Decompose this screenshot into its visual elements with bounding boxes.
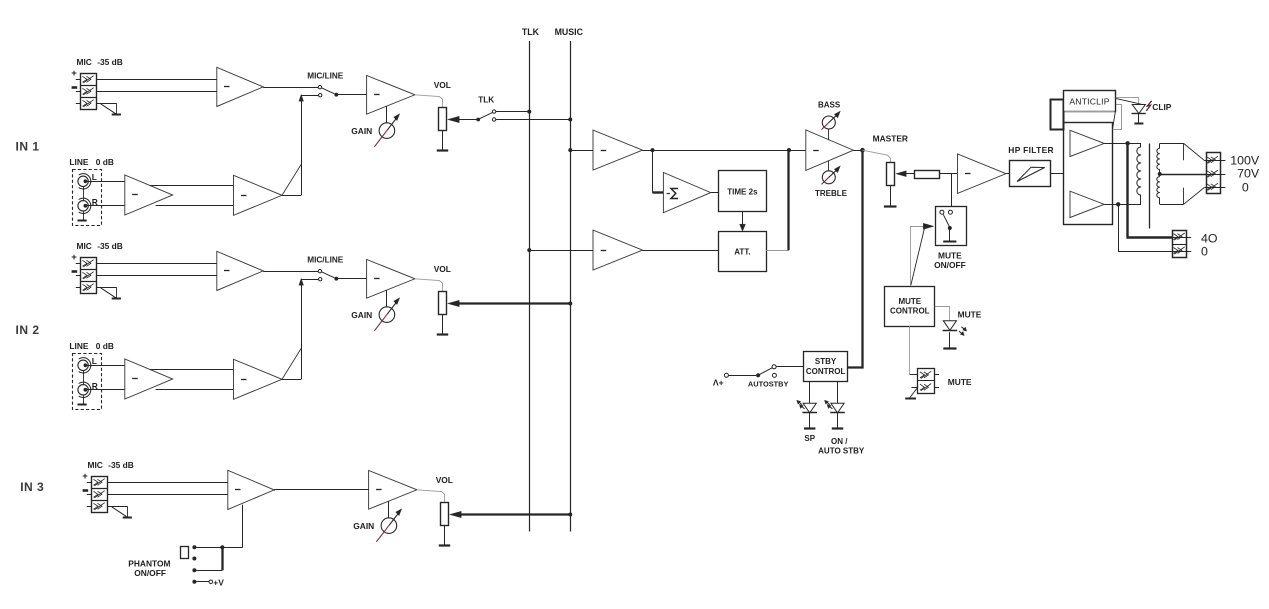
wire mute tap	[951, 174, 953, 207]
LED ON/AUTO STBY indicator	[824, 400, 844, 413]
wire VOL wiper arrow IN2	[448, 300, 460, 306]
wire autostby to stby control	[776, 366, 804, 368]
wire MIC - input IN3	[87, 494, 228, 496]
op-amp sigma detector	[663, 173, 710, 213]
wire anticlip to clip led gray	[1116, 98, 1139, 104]
svg-text:CONTROL: CONTROL	[890, 307, 930, 316]
wire 100V cell	[1204, 160, 1225, 162]
connector J2 LINE label	[69, 341, 114, 351]
label MIC/LINE switch IN1	[307, 71, 343, 80]
wire L-R jack ground link IN2	[83, 371, 85, 405]
svg-text:MIC/LINE: MIC/LINE	[307, 71, 343, 80]
wire mute control to LED	[935, 307, 950, 321]
wire gain amp out to VOL IN2	[415, 279, 443, 292]
svg-text:+: +	[71, 252, 77, 263]
node +V terminal	[209, 580, 213, 584]
op-amp MIC preamp IN2	[217, 251, 263, 290]
wire LINE L link IN2	[150, 369, 233, 371]
wire +V feed	[194, 581, 209, 583]
wire LINE R link IN1	[156, 205, 234, 207]
label IN 2	[16, 323, 40, 337]
label 70V	[1237, 167, 1260, 181]
block anticlip shadow	[1113, 105, 1122, 130]
wire stby LED2 stem	[837, 382, 839, 403]
node TLK bus label	[522, 27, 540, 37]
resistor VOL IN2	[439, 292, 447, 315]
label AUTOSTBY	[748, 380, 789, 389]
junction mute switch pole	[948, 226, 952, 230]
switch MIC/LINE throw MIC contact IN2	[318, 270, 321, 273]
svg-text:TLK: TLK	[522, 27, 540, 37]
label IN 3	[20, 480, 44, 494]
svg-text:AUTO STBY: AUTO STBY	[818, 447, 865, 456]
wire TIME to ATT arrow	[740, 211, 746, 231]
svg-text:L: L	[92, 172, 97, 182]
wire secondary bottom tap	[1160, 188, 1205, 205]
wire MIC - input IN2	[76, 275, 217, 277]
label MUTE switch line2	[934, 260, 966, 270]
label CLIP	[1152, 102, 1171, 112]
wire mute switch arrow	[923, 223, 934, 229]
ground MIC shield IN2	[101, 287, 121, 298]
wire mute terminal bottom	[912, 387, 940, 389]
label PHANTOM	[128, 559, 170, 569]
switch MIC/LINE throw LINE contact IN1	[319, 94, 322, 97]
svg-text:BASS: BASS	[818, 101, 841, 110]
label 0 line	[1242, 180, 1249, 194]
wire phantom lower link	[196, 570, 223, 572]
svg-text:TLK: TLK	[478, 95, 494, 104]
wire 4ohm cell	[1173, 237, 1192, 239]
junction TLK bus to talk amp	[527, 248, 531, 252]
block anticlip left tab	[1051, 100, 1064, 130]
wire LINE L IN2	[85, 365, 124, 367]
label ON /	[831, 437, 848, 446]
potentiometer TREBLE	[822, 166, 841, 185]
node phantom contact 1	[192, 545, 196, 549]
svg-text:CLIP: CLIP	[1152, 102, 1171, 112]
resistor VOL IN1	[439, 108, 447, 131]
switch mute contact B	[948, 210, 952, 214]
wire MIC shield IN2	[76, 287, 117, 289]
resistor VOL IN3	[441, 503, 449, 526]
ground VOL IN2	[437, 333, 448, 335]
label MIC/LINE switch IN2	[307, 255, 343, 264]
wire MIC - input IN1	[76, 91, 217, 93]
wire LINE L IN1	[85, 181, 124, 183]
svg-text:GAIN: GAIN	[351, 310, 372, 320]
op-amp tone control	[806, 130, 854, 170]
wire bridge top to 4ohm	[1128, 143, 1173, 237]
wire MIC preamp output IN2	[263, 271, 319, 273]
node phantom contact 4	[192, 580, 196, 584]
svg-text:70V: 70V	[1237, 167, 1260, 181]
connector line output terminal	[1207, 153, 1221, 194]
wire secondary top tap	[1160, 143, 1205, 160]
svg-text:LINE: LINE	[69, 341, 88, 351]
op-amp LINE sum stage IN1	[234, 175, 283, 215]
op-amp MIC preamp IN3	[228, 470, 274, 509]
block MUTE CONTROL	[885, 287, 935, 327]
label +V	[213, 577, 224, 587]
inductor transformer secondary	[1157, 143, 1160, 204]
connector RCA L jack IN1	[78, 174, 91, 189]
svg-text:GAIN: GAIN	[353, 521, 374, 531]
wire talk amp to ATT	[643, 250, 719, 252]
wire autostby feed	[728, 375, 756, 377]
op-amp GAIN stage IN1	[367, 75, 415, 114]
wire LINE R IN2	[85, 389, 124, 391]
switch PHANTOM body	[181, 547, 189, 559]
wire mute control to switch diag	[911, 228, 925, 285]
junction music amp out A	[651, 148, 655, 152]
LED MUTE indicator	[943, 321, 967, 336]
wire master wiper arrow	[896, 171, 914, 177]
label MUTE switch line1	[938, 251, 962, 261]
wire VOL to ground IN2	[442, 315, 444, 335]
wire MIC shield IN3	[87, 506, 128, 508]
label + pin J2	[71, 252, 77, 263]
svg-text:VOL: VOL	[434, 80, 451, 90]
svg-text:0: 0	[1242, 180, 1249, 194]
ground mute terminal	[905, 387, 918, 398]
junction MASTER node	[860, 148, 865, 153]
block STBY CONTROL	[804, 352, 848, 382]
svg-text:-35 dB: -35 dB	[97, 57, 123, 67]
svg-text:MIC/LINE: MIC/LINE	[307, 255, 343, 264]
wire music amp out	[643, 150, 806, 152]
switch TLK lever IN1	[480, 112, 493, 118]
wire gain amp out to VOL IN1	[415, 95, 443, 108]
svg-text:MUTE: MUTE	[898, 297, 921, 306]
wire 0V cell	[1204, 187, 1225, 189]
label VOL IN1	[434, 80, 451, 90]
wire switch pole to gain amp IN2	[336, 278, 366, 280]
label BASS	[818, 101, 841, 110]
wire LINE contact to MUSIC bus IN1	[496, 119, 571, 121]
ground SP LED	[804, 427, 815, 429]
wire phantom tap from mic amp IN3	[242, 505, 244, 548]
svg-text:+V: +V	[213, 577, 224, 587]
op-amp talk sum amp	[593, 230, 643, 270]
ground MIC shield IN1	[101, 103, 121, 114]
potentiometer GAIN IN3	[376, 509, 401, 542]
ground VOL IN3	[439, 544, 450, 546]
svg-text:GAIN: GAIN	[351, 126, 372, 136]
connector MUTE terminal block	[918, 369, 935, 394]
wire VOL to ground IN1	[442, 131, 444, 151]
ground VOL IN1	[437, 149, 448, 151]
junction MIC/LINE pole IN1	[334, 93, 338, 97]
svg-text:HP FILTER: HP FILTER	[1008, 145, 1054, 155]
wire MUSIC bus	[570, 41, 572, 532]
junction phantom node IN3	[220, 545, 224, 549]
switch mute contact A	[940, 210, 944, 214]
svg-text:AUTOSTBY: AUTOSTBY	[748, 380, 789, 389]
label 100V	[1230, 153, 1260, 167]
svg-text:IN 2: IN 2	[16, 323, 40, 337]
wire TLK bus	[529, 41, 531, 532]
label MUTE LED	[958, 309, 982, 319]
wire master pot ground stem	[890, 186, 892, 206]
label IN 1	[16, 139, 40, 153]
label TREBLE	[815, 189, 848, 198]
potentiometer BASS	[822, 111, 841, 130]
block HP FILTER	[1010, 161, 1051, 187]
svg-text:0 dB: 0 dB	[96, 157, 114, 167]
svg-text:IN 1: IN 1	[16, 139, 40, 153]
wire VOL wiper arrow IN3	[450, 511, 462, 517]
svg-text:MIC: MIC	[88, 460, 103, 470]
wire treble pot stem	[828, 161, 830, 171]
wire VOL to ground IN3	[444, 526, 446, 546]
switch MIC/LINE throw MIC contact IN1	[318, 86, 321, 89]
junction TLK switch pole IN1	[476, 118, 480, 122]
label VOL IN3	[436, 475, 453, 485]
svg-text:ON/OFF: ON/OFF	[934, 260, 966, 270]
wire MIC preamp output IN3	[273, 490, 276, 492]
wire branch to sigma amp	[653, 150, 664, 193]
switch autostby contact up	[772, 365, 776, 369]
wire phantom thick link	[221, 547, 223, 570]
block ANTICLIP	[1064, 91, 1116, 112]
svg-text:0 dB: 0 dB	[96, 341, 114, 351]
svg-text:TREBLE: TREBLE	[815, 189, 848, 198]
connector J1 LINE label	[69, 157, 114, 167]
switch MIC/LINE lever IN1	[322, 88, 336, 95]
svg-text:-35 dB: -35 dB	[97, 241, 123, 251]
svg-text:MUTE: MUTE	[948, 377, 972, 387]
LED CLIP indicator	[1132, 105, 1146, 114]
wire LINE riser arrow IN2	[299, 278, 318, 285]
svg-text:MIC: MIC	[77, 241, 92, 251]
wire MIC + input IN2	[76, 263, 217, 265]
switch autostby contact down	[772, 373, 776, 377]
wire anticlip to clip led	[1116, 98, 1142, 104]
wire L-R jack ground link IN1	[83, 187, 85, 221]
label + pin J1	[71, 68, 77, 79]
potentiometer GAIN IN2	[374, 298, 399, 331]
wire master node to master pot	[863, 150, 891, 162]
junction on MUSIC bus IN3	[568, 513, 572, 517]
switch MIC/LINE throw LINE contact IN2	[319, 278, 322, 281]
label 0 speaker	[1201, 244, 1208, 258]
op-amp music sum amp	[593, 130, 643, 170]
ground mute switch	[943, 241, 956, 243]
wire gain pot stem IN2	[386, 290, 388, 307]
wire VOL wiper arrow IN1	[448, 116, 478, 122]
connector J3 MIC label	[88, 460, 134, 470]
svg-text:MUTE: MUTE	[938, 251, 962, 261]
label GAIN IN3	[353, 521, 374, 531]
wire LINE riser arrow IN1	[299, 94, 318, 101]
wire MIC shield IN1	[76, 103, 117, 105]
junction on MUSIC bus IN1	[568, 118, 572, 122]
connector J1 MIC label	[77, 57, 123, 67]
label TLK switch IN1	[478, 95, 494, 104]
wire mute control to switch gray	[911, 227, 924, 287]
wire MIC + input IN1	[76, 79, 217, 81]
wire MIC preamp output IN1	[263, 87, 319, 89]
connector 4ohm terminal	[1173, 231, 1187, 258]
ground ON LED	[832, 427, 843, 429]
wire anticlip box diagonal	[1065, 111, 1116, 129]
wire MUSIC bus to music amp	[570, 150, 593, 152]
switch mute lever	[943, 214, 949, 226]
connector J2 LINE dashed box	[73, 354, 102, 410]
label + pin J3	[82, 471, 88, 482]
label GAIN IN2	[351, 310, 372, 320]
wire TLK contact to TLK bus IN1	[496, 111, 530, 113]
op-amp LINE sum stage IN2	[234, 359, 283, 399]
node MUSIC bus label	[555, 27, 584, 37]
wire mute LED ground stem	[949, 332, 951, 349]
LED SP indicator	[797, 400, 817, 413]
label - pin J1	[72, 86, 78, 89]
ground CLIP LED	[1134, 123, 1143, 125]
op-amp power bridge top	[1070, 130, 1104, 156]
label - pin J2	[72, 270, 78, 273]
wire preamp to HP filter	[1006, 173, 1009, 175]
junction on MUSIC bus IN2	[568, 302, 572, 306]
symbol clip flash	[1146, 101, 1151, 111]
svg-text:VOL: VOL	[434, 264, 451, 274]
svg-text:CONTROL: CONTROL	[806, 367, 846, 376]
wire stby LED1 stem	[809, 382, 811, 403]
junction autostby pole	[756, 373, 760, 377]
svg-text:-35 dB: -35 dB	[108, 460, 134, 470]
wire mute terminal top	[910, 374, 939, 376]
node phantom contact 2	[192, 557, 196, 561]
resistor series R	[915, 171, 940, 179]
svg-text:LINE: LINE	[69, 157, 88, 167]
connector RCA R jack IN2	[78, 382, 91, 397]
label PHANTOM ON/OFF	[134, 568, 166, 578]
wire VOL wiper to MUSIC bus IN2	[459, 302, 571, 304]
wire VOL wiper to MUSIC bus IN3	[461, 513, 571, 515]
block power amplifier	[1064, 123, 1113, 225]
op-amp power bridge bottom	[1070, 191, 1104, 217]
switch MIC/LINE lever IN2	[322, 272, 336, 279]
wire switch pole to gain amp IN1	[336, 94, 366, 96]
label - pin J3	[83, 489, 89, 492]
ground MIC shield IN3	[112, 506, 132, 517]
svg-text:STBY: STBY	[815, 357, 837, 366]
svg-text:100V: 100V	[1230, 153, 1260, 167]
junction bridge top out	[1125, 141, 1129, 145]
block TIME 2s	[719, 171, 767, 212]
svg-text:MUTE: MUTE	[958, 309, 982, 319]
wire series R to power preamp	[939, 173, 957, 175]
label R IN1	[92, 197, 98, 207]
wire LINE merge triangle IN2	[282, 282, 302, 380]
connector RCA L jack IN2	[78, 358, 91, 373]
svg-text:VOL: VOL	[436, 475, 453, 485]
resistor MASTER volume	[887, 163, 895, 186]
connector J2 MIC terminal block	[80, 258, 96, 294]
wire secondary center tap	[1160, 174, 1207, 176]
block MUTE ON/OFF switch	[936, 207, 967, 246]
svg-text:MASTER: MASTER	[873, 134, 908, 144]
wire tone out	[853, 150, 861, 152]
junction music amp out B	[787, 148, 791, 152]
wire LINE L link IN1	[150, 185, 233, 187]
wire LINE merge triangle IN1	[282, 98, 302, 196]
op-amp GAIN stage IN3	[369, 470, 417, 509]
wire MIC amp to gain amp IN3	[274, 489, 368, 491]
wire bridge top out	[1104, 143, 1141, 145]
label 4 ohm	[1201, 232, 1218, 246]
block ATT	[719, 232, 767, 272]
op-amp MIC preamp IN1	[217, 67, 263, 106]
label L IN2	[92, 356, 97, 366]
wire sigma amp to TIME box	[711, 192, 719, 194]
label MUTE terminal	[948, 377, 972, 387]
wire LINE R IN1	[85, 205, 124, 207]
label AUTO STBY	[818, 447, 865, 456]
svg-text:Λ+: Λ+	[713, 378, 724, 388]
wire 4ohm 0 cell	[1173, 251, 1192, 253]
svg-text:MIC: MIC	[77, 57, 92, 67]
potentiometer GAIN IN1	[374, 114, 399, 147]
node autostby input contact	[724, 373, 728, 377]
ground LINE jacks IN2	[78, 404, 87, 406]
label SP	[804, 434, 815, 443]
wire HP filter to power amp	[1050, 173, 1063, 175]
wire ATT out riser	[787, 150, 789, 250]
wire ATT out	[766, 250, 789, 252]
label MASTER	[873, 134, 908, 144]
ground MUTE LED	[943, 347, 956, 349]
connector J3 MIC terminal block	[91, 477, 107, 513]
svg-text:TIME 2s: TIME 2s	[727, 187, 758, 196]
op-amp GAIN stage IN2	[367, 259, 415, 298]
junction MIC/LINE pole IN2	[334, 277, 338, 281]
wire gain pot stem IN1	[386, 106, 388, 123]
svg-text:IN 3: IN 3	[20, 480, 44, 494]
svg-text:0: 0	[1201, 244, 1208, 258]
junction secondary center tap	[1158, 172, 1162, 176]
op-amp power preamp	[958, 154, 1007, 194]
svg-text:+: +	[82, 471, 88, 482]
wire gain amp out to VOL IN3	[417, 490, 445, 503]
connector RCA R jack IN1	[78, 198, 91, 213]
junction on TLK bus IN1	[527, 110, 531, 114]
op-amp LINE input stage IN2	[125, 359, 173, 399]
connector J1 LINE dashed box	[73, 170, 102, 226]
ground MASTER pot	[884, 205, 897, 207]
switch TLK contact down IN1	[492, 118, 495, 121]
label R IN2	[92, 381, 98, 391]
wire TLK bus to talk amp	[529, 250, 593, 252]
wire 70V cell	[1207, 174, 1226, 176]
wire mute control to mute terminal	[909, 326, 911, 375]
inductor transformer primary	[1137, 143, 1141, 204]
ground LINE jacks IN1	[78, 220, 87, 222]
label VOL IN2	[434, 264, 451, 274]
wire phantom horizontal IN3	[194, 547, 242, 549]
junction MUSIC bus to music amp	[568, 148, 572, 152]
node phantom contact 3	[192, 568, 196, 572]
connector J1 MIC terminal block	[80, 74, 96, 110]
wire LINE R link IN2	[156, 389, 234, 391]
label lambda plus	[713, 378, 724, 388]
op-amp LINE input stage IN1	[125, 175, 173, 215]
junction bridge bottom out	[1116, 202, 1120, 206]
label L IN1	[92, 172, 97, 182]
label HP FILTER	[1008, 145, 1054, 155]
wire MIC + input IN3	[87, 482, 228, 484]
